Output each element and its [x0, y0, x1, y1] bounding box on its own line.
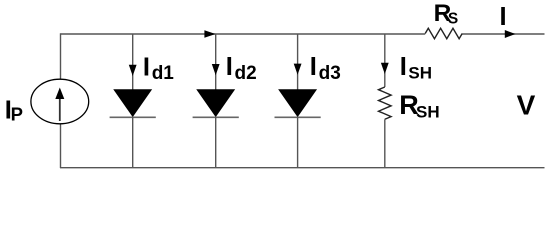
wire bottom rail: [60, 167, 545, 169]
current source IP ellipse: [31, 79, 89, 124]
diode D1 branch wire lower: [132, 117, 134, 168]
diode D2 branch wire upper: [215, 34, 217, 91]
svg-text:SH: SH: [408, 63, 432, 82]
svg-text:I: I: [500, 3, 507, 31]
svg-text:I: I: [310, 53, 317, 81]
wire left rail upper: [60, 33, 62, 79]
diode D2 current arrowhead: [212, 64, 220, 75]
diode D3 branch wire upper: [297, 34, 299, 91]
svg-text:V: V: [517, 89, 536, 120]
svg-text:I: I: [226, 53, 233, 81]
resistor RS zigzag: [425, 28, 462, 38]
svg-text:I: I: [400, 53, 407, 81]
diode D3 branch wire lower: [297, 117, 299, 168]
shunt branch wire upper: [384, 34, 386, 87]
diode D1 triangle: [114, 90, 151, 116]
diode D3 triangle: [279, 90, 316, 116]
diode D2 cathode bar: [193, 116, 239, 118]
svg-text:P: P: [11, 104, 23, 125]
diode D3 cathode bar: [275, 116, 321, 118]
svg-text:d3: d3: [319, 63, 341, 84]
svg-text:I: I: [143, 53, 150, 81]
diode D1 cathode bar: [110, 116, 156, 118]
svg-text:SH: SH: [416, 102, 440, 121]
svg-text:S: S: [448, 11, 458, 28]
diode D2 triangle: [197, 90, 234, 116]
diode D1 branch wire upper: [132, 34, 134, 91]
shunt current ISH arrowhead: [381, 63, 389, 74]
wire arrow output current: [505, 30, 516, 38]
wire top rail right segment: [462, 33, 544, 35]
svg-text:d1: d1: [152, 63, 175, 84]
resistor RSH zigzag: [379, 87, 392, 119]
wire arrow into node 2: [204, 30, 215, 38]
wire top rail left segment: [61, 33, 426, 35]
shunt branch wire lower: [384, 119, 386, 168]
current source IP arrow: [59, 98, 61, 122]
svg-text:d2: d2: [235, 63, 257, 84]
diode D2 branch wire lower: [215, 117, 217, 168]
diode D1 current arrowhead: [129, 65, 137, 76]
wire left rail lower: [60, 124, 62, 168]
diode D3 current arrowhead: [294, 64, 302, 75]
